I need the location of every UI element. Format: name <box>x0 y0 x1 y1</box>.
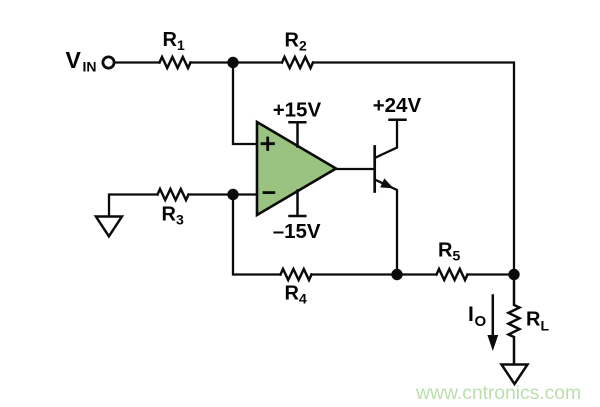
transistor Q1 emitter arrow <box>380 178 393 188</box>
resistor RL (vertical) <box>509 275 520 365</box>
wire VIN terminal to R1 <box>115 61 160 63</box>
svg-text:4: 4 <box>299 291 307 307</box>
wire R5 to output node <box>468 273 515 275</box>
transistor Q1 emitter <box>375 180 397 275</box>
-15V supply bar and stem <box>290 191 306 217</box>
svg-text:R: R <box>285 283 300 305</box>
svg-text:5: 5 <box>453 248 461 264</box>
svg-text:–15V: –15V <box>273 220 321 243</box>
resistor R1 <box>160 57 191 68</box>
svg-text:I: I <box>468 303 474 326</box>
svg-text:R: R <box>285 30 300 52</box>
ground (left) <box>96 217 122 237</box>
transistor Q1 base bar <box>373 147 376 192</box>
+15V supply bar and stem <box>290 122 306 146</box>
+24V supply bar <box>390 118 406 121</box>
ground (right) <box>502 365 528 385</box>
svg-text:R: R <box>526 309 541 331</box>
svg-text:3: 3 <box>176 212 184 228</box>
resistor R3 <box>158 189 189 200</box>
svg-text:www.cntronics.com: www.cntronics.com <box>415 382 581 404</box>
svg-text:O: O <box>475 313 487 330</box>
node D junction dot (output node) <box>508 269 519 280</box>
transistor Q1 collector <box>375 121 397 158</box>
wire inverting node down and along bottom to R4 <box>233 195 281 275</box>
svg-text:IN: IN <box>83 59 97 75</box>
op-amp U1 body <box>257 122 336 215</box>
resistor R4 <box>281 269 312 280</box>
wire R1 to R2 <box>191 61 283 63</box>
svg-text:+15V: +15V <box>273 99 322 122</box>
node B junction dot (inverting input) <box>227 189 238 200</box>
Io current arrow <box>492 296 495 337</box>
wire top node down to op-amp + input <box>233 63 257 145</box>
node A junction dot (R1/R2/+in) <box>227 57 238 68</box>
svg-text:R: R <box>162 204 177 226</box>
svg-text:V: V <box>66 47 82 73</box>
resistor R5 <box>437 269 468 280</box>
svg-text:L: L <box>541 318 550 334</box>
wire R2 to right rail top corner and down to output node <box>313 63 514 275</box>
node VIN input terminal <box>103 57 114 68</box>
svg-text:R: R <box>163 29 178 51</box>
op-amp - input sign <box>264 191 274 194</box>
svg-text:2: 2 <box>299 38 307 54</box>
svg-text:1: 1 <box>177 37 185 53</box>
wire R4 to emitter node <box>312 273 437 275</box>
wire R3 to op-amp - input <box>189 193 258 195</box>
node C junction dot (emitter/R4/R5) <box>391 269 402 280</box>
svg-text:+24V: +24V <box>373 94 422 117</box>
wire op-amp output to transistor base <box>334 168 374 170</box>
svg-text:R: R <box>438 240 453 262</box>
op-amp + input sign <box>262 138 274 150</box>
resistor R2 <box>282 57 313 68</box>
wire ground stub to R3 <box>109 195 158 217</box>
